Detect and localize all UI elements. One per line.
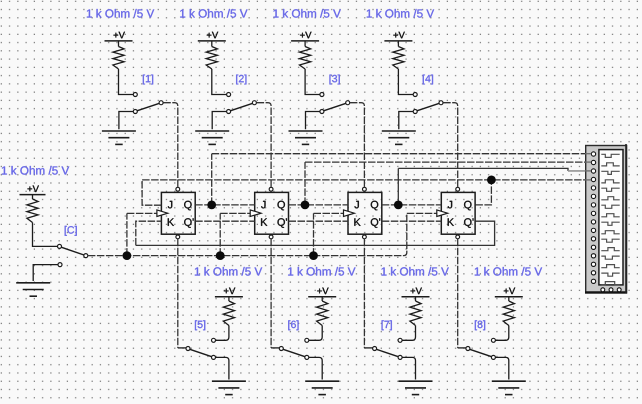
wire ground to switch contact (top 2) <box>212 112 226 130</box>
FF U3 label J <box>354 201 358 209</box>
switch SW5 lower contact <box>212 355 216 359</box>
clock switch lower contact <box>58 263 62 267</box>
switch key label [4] <box>423 75 433 85</box>
ground (top 1) <box>102 130 136 132</box>
wire Q1 to J2 <box>195 204 255 206</box>
FF U2 label Q <box>278 201 285 211</box>
riser wire Q2 to analyzer line <box>304 162 306 205</box>
+V power symbol (top 3) <box>300 32 311 39</box>
FF U2 label K <box>261 218 267 225</box>
wire ground to switch contact (top 1) <box>119 112 133 130</box>
wire switch 4 output to FF preset pin <box>443 103 458 187</box>
FF U1 clock arrowhead <box>157 210 168 217</box>
analyzer terminal pin 11 <box>591 237 595 241</box>
switch SW4 lever <box>417 103 439 111</box>
JK flip-flop U3 body <box>348 192 382 234</box>
wire FF4 clear pin to switch 8 <box>457 239 459 348</box>
analyzer waveform trace 15 <box>601 273 619 276</box>
FF U4 preset pin circle <box>456 187 460 191</box>
riser wire Q1 to analyzer line <box>211 154 213 205</box>
clock stub wire into FF2 <box>220 212 250 214</box>
FF U4 label K <box>448 218 454 225</box>
analyzer terminal pin 4 <box>591 177 595 181</box>
clock switch upper contact <box>58 244 62 248</box>
analyzer terminal pin 2 <box>591 160 595 164</box>
switch SW6 common contact <box>279 347 283 351</box>
junction dot clock/FF2 <box>216 251 225 260</box>
switch SW6 lever <box>283 349 305 356</box>
analyzer channel 3 wire gray tail <box>568 170 591 172</box>
label: 1 k Ohm /5 V (top 3) <box>274 9 341 18</box>
analyzer channel 3 wire (line C) <box>398 168 568 171</box>
analyzer terminal pin 6 <box>591 194 595 198</box>
FF U1 label Q' <box>184 218 193 228</box>
analyzer terminal pin 10 <box>591 228 595 232</box>
wire switch contact to ground (bottom 6) <box>309 357 322 379</box>
switch SW2 upper contact <box>227 93 231 97</box>
ground (top 2) <box>195 130 229 132</box>
ground (clock) <box>16 282 50 284</box>
switch SW2 lower contact <box>227 110 231 114</box>
FF U3 label Q <box>371 201 378 211</box>
analyzer waveform trace 10 <box>601 231 619 234</box>
analyzer bottom terminal 1 <box>601 288 605 292</box>
FF U4 clear pin circle <box>456 235 460 239</box>
analyzer waveform trace 8 <box>601 214 619 217</box>
switch key label [8] <box>475 320 485 330</box>
wire resistor to clock switch contact <box>33 223 58 247</box>
label: 1 k Ohm /5 V (bottom 6) <box>288 267 355 276</box>
wire FF1 clear pin to switch 5 <box>177 239 179 348</box>
+V power symbol (clock) <box>28 186 39 193</box>
switch key label [2] <box>236 75 246 85</box>
wire resistor to switch contact (top 3) <box>305 69 320 95</box>
switch SW4 lower contact <box>413 110 417 114</box>
switch SW5 common contact <box>186 347 190 351</box>
switch SW6 upper contact <box>305 338 309 342</box>
wire ground to switch contact (top 4) <box>399 112 413 130</box>
resistor 1k pull-up (clock) <box>27 199 38 223</box>
switch SW1 common contact <box>159 101 163 105</box>
switch key label [6] <box>288 320 298 330</box>
analyzer channel 2 wire (line B) <box>305 161 591 163</box>
resistor 1k pull-up (bottom 6) <box>317 301 328 326</box>
ground (bottom 5) <box>212 380 246 382</box>
FF U2 label Q' <box>278 218 287 228</box>
wire Q2' to K3 <box>289 220 349 222</box>
analyzer input stub wire ch1 <box>585 153 591 155</box>
wire FF3 clear pin to switch 7 <box>363 239 365 348</box>
analyzer terminal pin 5 <box>591 186 595 190</box>
switch SW4 upper contact <box>413 93 417 97</box>
analyzer terminal pin 14 <box>591 262 595 266</box>
wire switch contact to ground (bottom 8) <box>496 357 509 379</box>
ground (bottom 6) <box>305 380 339 382</box>
FF U3 clear pin circle <box>363 235 367 239</box>
feedback wire Q4 to J1 and analyzer ch4 (line D) <box>142 179 591 181</box>
switch SW3 upper contact <box>320 93 324 97</box>
FF U1 clear pin circle <box>176 235 180 239</box>
analyzer waveform trace 13 <box>601 256 619 259</box>
analyzer terminal pin 13 <box>591 254 595 258</box>
resistor 1k pull-up (top 3) <box>300 47 311 70</box>
analyzer terminal pin 3 <box>591 169 595 173</box>
label: 1 k Ohm /5 V (bottom 5) <box>195 267 262 276</box>
label: 1 k Ohm /5 V (bottom 8) <box>475 267 542 276</box>
switch SW6 lower contact <box>305 355 309 359</box>
wire switch contact to ground (bottom 5) <box>216 357 229 379</box>
switch SW1 lower contact <box>133 110 137 114</box>
FF U3 preset pin circle <box>363 187 367 191</box>
resistor 1k pull-up (top 2) <box>206 47 217 70</box>
wire switch contact to ground (bottom 7) <box>402 357 415 379</box>
clock switch lever <box>61 247 84 255</box>
wire ground to clock switch contact <box>33 265 58 281</box>
analyzer terminal pin 7 <box>591 203 595 207</box>
analyzer channel 1 wire (line A) <box>212 153 591 155</box>
FF U3 clock arrowhead <box>344 210 355 217</box>
junction dot Q4/feedback <box>487 176 496 185</box>
wire resistor to switch contact (bottom 8) <box>496 326 509 341</box>
analyzer terminal pin 8 <box>591 211 595 215</box>
wire switch 3 output to FF preset pin <box>350 103 365 187</box>
switch SW2 lever <box>230 103 252 111</box>
wire Q2 to J3 <box>289 204 349 206</box>
clock switch common contact <box>84 254 88 258</box>
clock stub wire into FF1 <box>127 212 157 214</box>
analyzer waveform trace 3 <box>601 171 619 174</box>
wire resistor to switch contact (top 1) <box>119 69 134 95</box>
switch SW1 upper contact <box>133 93 137 97</box>
analyzer bottom terminal 3 <box>617 288 621 292</box>
resistor 1k pull-up (top 1) <box>113 47 124 70</box>
wire ground to switch contact (top 3) <box>306 112 320 130</box>
wire Q3' to K4 <box>382 220 442 222</box>
switch SW3 lever <box>324 103 346 111</box>
switch key label [7] <box>382 320 392 330</box>
analyzer waveform trace 2 <box>601 163 619 166</box>
ground (bottom 8) <box>492 380 526 382</box>
junction dot Q1 <box>207 201 216 210</box>
ground (top 3) <box>289 130 323 132</box>
analyzer waveform trace 6 <box>601 197 619 200</box>
label: 1 k Ohm /5 V (top 4) <box>367 9 434 18</box>
switch SW7 upper contact <box>398 338 402 342</box>
wire FF2 clear pin to switch 6 <box>270 239 272 348</box>
switch SW7 common contact <box>373 347 377 351</box>
analyzer waveform trace 4 <box>601 180 619 183</box>
+V power symbol (top 4) <box>393 32 404 39</box>
wire Q1' to K2 <box>195 220 255 222</box>
analyzer terminal pin 9 <box>591 220 595 224</box>
switch SW7 lever <box>376 349 398 356</box>
FF U4 clock arrowhead <box>437 210 448 217</box>
clock riser wire FF3 <box>313 213 315 255</box>
ground (top 4) <box>382 130 416 132</box>
ground (bottom 7) <box>399 380 433 382</box>
switch SW5 upper contact <box>212 338 216 342</box>
switch SW5 lever <box>190 349 212 356</box>
wire J1 input from feedback line <box>142 180 161 205</box>
logic analyzer instrument bezel <box>586 146 627 293</box>
analyzer waveform trace 5 <box>601 188 619 191</box>
FF U2 clear pin circle <box>269 235 273 239</box>
JK flip-flop U4 body <box>441 192 475 234</box>
label: 1 k Ohm /5 V (top 2) <box>180 9 247 18</box>
analyzer terminal pin 16 <box>591 279 595 283</box>
+V power symbol (top 2) <box>207 32 218 39</box>
analyzer waveform trace 14 <box>601 265 619 268</box>
FF U4 label Q' <box>464 218 473 228</box>
switch key label [C] <box>65 226 77 236</box>
junction dot Q3 <box>394 201 403 210</box>
wire into switch 6 common <box>271 347 279 349</box>
switch key label [5] <box>195 320 205 330</box>
switch SW3 lower contact <box>320 110 324 114</box>
resistor 1k pull-up (bottom 8) <box>503 301 514 326</box>
FF U2 label J <box>261 201 265 209</box>
+V power symbol (bottom 6) <box>317 288 328 295</box>
JK flip-flop U2 body <box>255 192 289 234</box>
label: 1 k Ohm /5 V (bottom 7) <box>382 267 449 276</box>
wire into switch 5 common <box>178 347 186 349</box>
+V power symbol (bottom 8) <box>504 288 515 295</box>
clock riser wire FF2 <box>219 213 221 255</box>
wire resistor to switch contact (bottom 5) <box>216 326 229 341</box>
clock stub wire into FF4 <box>407 212 437 214</box>
FF U2 preset pin circle <box>269 187 273 191</box>
analyzer waveform trace 16 <box>601 282 619 285</box>
wire switch 2 output to FF preset pin <box>257 103 272 187</box>
analyzer waveform trace 9 <box>601 222 619 225</box>
wire switch 1 output to FF preset pin <box>163 103 178 187</box>
FF U3 label K <box>354 218 360 225</box>
+V power symbol (top 1) <box>114 32 125 39</box>
clock riser wire FF1 <box>126 213 128 255</box>
wire resistor to switch contact (top 4) <box>398 69 413 95</box>
clock bus wire <box>88 213 407 255</box>
FF U1 label K <box>168 218 174 225</box>
+V power symbol (bottom 5) <box>224 288 235 295</box>
FF U1 label Q <box>184 201 191 211</box>
FF U1 label J <box>168 201 172 209</box>
wire Q4' feedback into K1 <box>136 221 162 245</box>
FF U2 clock arrowhead <box>250 210 261 217</box>
FF U3 label Q' <box>371 218 380 228</box>
switch SW8 upper contact <box>491 338 495 342</box>
analyzer input stub wire ch4 <box>585 179 591 181</box>
riser wire Q3 to analyzer line <box>397 168 399 205</box>
FF U4 label J <box>448 201 452 209</box>
analyzer input stub wire ch3 <box>585 170 591 172</box>
switch SW7 lower contact <box>398 355 402 359</box>
switch SW8 lever <box>470 349 492 356</box>
switch SW3 common contact <box>346 101 350 105</box>
analyzer bottom terminal 2 <box>609 288 613 292</box>
resistor 1k pull-up (bottom 7) <box>410 301 421 326</box>
clock stub wire into FF3 <box>314 212 344 214</box>
switch SW2 common contact <box>252 101 256 105</box>
switch SW8 common contact <box>466 347 470 351</box>
resistor 1k pull-up (top 4) <box>393 47 404 70</box>
analyzer waveform trace 12 <box>601 248 619 251</box>
label: 1 k Ohm /5 V (clock) <box>2 166 69 175</box>
FF U4 label Q <box>464 201 471 211</box>
analyzer waveform trace 1 <box>601 154 619 157</box>
switch SW1 lever <box>137 103 159 111</box>
switch SW4 common contact <box>439 101 443 105</box>
wire Q4' feedback to K1 (right and bottom legs) <box>136 221 495 245</box>
analyzer waveform trace 11 <box>601 239 619 242</box>
junction dot clock/FF3 <box>309 251 318 260</box>
label: 1 k Ohm /5 V (top 1) <box>87 9 154 18</box>
resistor 1k pull-up (bottom 5) <box>223 301 234 326</box>
wire into switch 7 common <box>364 347 372 349</box>
analyzer terminal pin 1 <box>591 152 595 156</box>
switch SW8 lower contact <box>491 355 495 359</box>
analyzer waveform trace 7 <box>601 205 619 208</box>
junction dot clock/FF1 <box>123 251 132 260</box>
logic analyzer screen <box>599 150 623 285</box>
JK flip-flop U1 body <box>161 192 195 234</box>
wire resistor to switch contact (bottom 7) <box>402 326 415 341</box>
switch key label [1] <box>143 75 153 85</box>
wire Q4 up to feedback line <box>475 181 491 205</box>
wire resistor to switch contact (top 2) <box>212 69 227 95</box>
junction dot Q2 <box>301 201 310 210</box>
switch key label [3] <box>330 75 340 85</box>
analyzer terminal pin 15 <box>591 271 595 275</box>
analyzer input stub wire ch2 <box>585 161 591 163</box>
FF U1 preset pin circle <box>176 187 180 191</box>
+V power symbol (bottom 7) <box>411 288 422 295</box>
wire resistor to switch contact (bottom 6) <box>309 326 322 341</box>
wire into switch 8 common <box>458 347 466 349</box>
analyzer terminal pin 12 <box>591 245 595 249</box>
wire Q3 to J4 <box>382 204 442 206</box>
